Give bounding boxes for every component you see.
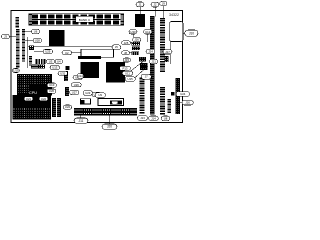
- svg-text:J13: J13: [140, 116, 145, 120]
- right pin strip D: [176, 78, 181, 114]
- leader J25 elbow: [129, 42, 132, 44]
- leader top pill 3: [163, 6, 165, 19]
- svg-text:U28: U28: [35, 39, 41, 43]
- callout U10: [47, 83, 56, 87]
- leader diagonal chip pills 2: [134, 66, 148, 79]
- jumper block JP3: [131, 51, 139, 55]
- svg-text:J7: J7: [145, 75, 148, 79]
- small IC right of U13: [66, 66, 70, 70]
- callout U24: [176, 92, 190, 97]
- callout J17: [163, 50, 172, 54]
- callout U27: [70, 90, 79, 94]
- svg-text:J8: J8: [124, 51, 127, 55]
- svg-text:J1: J1: [139, 2, 142, 6]
- svg-text:J2: J2: [154, 3, 157, 7]
- CPU pin grid dots: [14, 76, 50, 118]
- leader top pill 1: [139, 7, 141, 15]
- pin strip col2 (long, x150): [150, 16, 155, 115]
- callout U11: [122, 71, 132, 75]
- callout U2: [62, 51, 72, 55]
- jumper block right of col3: [165, 56, 169, 62]
- BANK 0 label: [76, 16, 93, 22]
- SIMM right end cap: [121, 14, 124, 25]
- CPU socket upper: [17, 74, 52, 96]
- svg-text:J15: J15: [125, 58, 130, 62]
- svg-text:J24: J24: [148, 49, 153, 53]
- callout J1: [136, 2, 144, 7]
- keyboard connector J10 outline: [170, 22, 183, 42]
- callout U22: [39, 97, 48, 101]
- svg-text:U6: U6: [34, 30, 38, 34]
- IC U2 (black chip): [49, 30, 65, 46]
- svg-text:CPU: CPU: [29, 91, 37, 95]
- board outline: [11, 10, 183, 122]
- callout U9: [95, 93, 106, 98]
- svg-text:J9: J9: [162, 2, 165, 6]
- callout J16: [182, 100, 193, 105]
- callout J10: [185, 30, 198, 36]
- svg-text:U22: U22: [65, 105, 71, 109]
- svg-text:U8: U8: [164, 116, 168, 120]
- jumper block JP1: [131, 42, 140, 46]
- leader U29: [34, 51, 43, 53]
- svg-text:J14: J14: [151, 116, 156, 120]
- svg-text:J3: J3: [4, 35, 7, 39]
- callout U21: [24, 97, 33, 101]
- callout J20: [102, 124, 117, 129]
- leader J16: [180, 102, 183, 104]
- callout J9: [160, 1, 167, 5]
- callout U4: [55, 59, 63, 63]
- callout U25: [73, 75, 83, 79]
- svg-text:U30: U30: [130, 30, 136, 34]
- SIMM socket bank row 1: [29, 14, 124, 19]
- svg-text:U9: U9: [98, 93, 102, 97]
- svg-text:J10: J10: [189, 31, 194, 35]
- callout U22: [63, 105, 71, 109]
- leader J8 elbow: [130, 52, 132, 54]
- svg-text:J20: J20: [107, 125, 112, 129]
- svg-text:J17: J17: [165, 50, 170, 54]
- callout U24: [92, 92, 101, 96]
- callout J2: [151, 2, 159, 7]
- callout U28: [33, 38, 42, 42]
- leader line J3: [9, 36, 16, 38]
- callout U26: [71, 83, 81, 87]
- pin strip left of bottom (b): [57, 98, 61, 117]
- svg-text:U29: U29: [45, 50, 51, 54]
- svg-text:J11: J11: [79, 119, 84, 123]
- svg-text:J5: J5: [115, 45, 118, 49]
- callout U29: [43, 50, 53, 54]
- callout J3: [2, 34, 10, 38]
- callout U31: [58, 71, 68, 75]
- CPU socket lower: [13, 95, 52, 120]
- leader U12 down: [147, 34, 149, 42]
- callout U8: [161, 116, 169, 121]
- header strip above CPU: [31, 65, 45, 69]
- pin strip col3 lower: [160, 87, 165, 115]
- svg-text:U24: U24: [180, 92, 186, 96]
- svg-text:BANK 0: BANK 0: [79, 18, 90, 22]
- callout J11: [74, 118, 88, 123]
- svg-text:J16: J16: [185, 101, 190, 105]
- callout U20: [47, 89, 56, 93]
- DIP socket bottom center 2: [98, 99, 124, 106]
- leader J26 elbow: [136, 41, 138, 42]
- pin strip col3 upper: [160, 18, 165, 72]
- leader J10: [183, 32, 185, 34]
- callout J8: [122, 51, 130, 55]
- svg-text:U2: U2: [65, 51, 69, 55]
- jumper block small left: [29, 45, 34, 50]
- jumper block JP5: [140, 63, 148, 70]
- callout U12: [144, 30, 152, 34]
- jumper block JP2: [132, 47, 140, 51]
- callout J25: [122, 41, 131, 45]
- leader U2 to socket: [72, 52, 81, 54]
- callout U19: [13, 69, 20, 73]
- svg-text:U27: U27: [72, 90, 78, 94]
- connector block left-mid horizontal: [35, 59, 46, 64]
- callout J7: [141, 74, 151, 79]
- SIMM socket bank row 2: [29, 20, 124, 25]
- callout J13: [137, 116, 147, 121]
- callout U23: [83, 91, 93, 95]
- svg-text:U14: U14: [78, 74, 84, 78]
- IC U1 top right: [135, 14, 145, 27]
- callout U6: [32, 29, 40, 34]
- svg-text:U21: U21: [26, 97, 32, 101]
- connector left bar 2: [22, 29, 25, 62]
- callout U13: [50, 66, 60, 70]
- leader U30 down: [132, 34, 134, 38]
- leader vertical line center-left: [27, 37, 29, 68]
- callout J14: [149, 116, 159, 121]
- svg-text:U31: U31: [60, 71, 66, 75]
- IC U4 chipset A: [81, 62, 100, 78]
- callout U30: [129, 30, 137, 34]
- leader diagonal chip pills 1: [130, 60, 145, 72]
- svg-text:U10: U10: [49, 83, 55, 87]
- jumper strip left mid: [29, 56, 32, 66]
- svg-text:U13: U13: [52, 66, 58, 70]
- DIP socket outline (white): [81, 49, 114, 57]
- leader below keyboard connector: [169, 42, 171, 65]
- callout J15: [123, 58, 131, 62]
- leader U6: [25, 31, 31, 33]
- jumper strip right of CPU lower: [65, 87, 69, 96]
- svg-text:P13: P13: [123, 66, 128, 70]
- leader top pill 2: [154, 7, 156, 17]
- svg-text:U20: U20: [49, 89, 55, 93]
- leader J20: [108, 115, 110, 124]
- callout U15: [125, 77, 135, 81]
- callout J24: [146, 49, 155, 53]
- pin strip col1 lower bar: [140, 78, 145, 114]
- callout J21: [150, 59, 158, 63]
- callout P13: [120, 66, 131, 70]
- jumper block JP4: [139, 57, 146, 62]
- svg-text:U23: U23: [85, 91, 91, 95]
- leader J11: [80, 115, 82, 118]
- svg-text:U26: U26: [74, 83, 80, 87]
- bottom right small strip: [168, 99, 172, 113]
- svg-text:U3: U3: [49, 59, 53, 63]
- IC U5 chipset B: [106, 62, 125, 83]
- leader long horizontal to J5: [28, 46, 112, 48]
- callout J5: [112, 45, 121, 50]
- pin strip left of bottom (a): [52, 98, 56, 117]
- svg-text:U12: U12: [145, 30, 151, 34]
- DIP chip bar: [78, 56, 101, 59]
- svg-text:U4: U4: [57, 60, 61, 64]
- small component near U24: [171, 92, 175, 96]
- SIMM left end cap: [29, 14, 32, 25]
- small box bottom center 1: [81, 99, 91, 104]
- svg-text:U22: U22: [41, 97, 47, 101]
- svg-text:U11: U11: [125, 71, 130, 75]
- callout U3: [46, 59, 54, 63]
- leader U28: [25, 40, 33, 42]
- svg-text:J21: J21: [151, 60, 156, 64]
- svg-text:U19: U19: [13, 69, 19, 73]
- callout U14: [77, 74, 84, 78]
- connector left bar 1: [16, 29, 20, 68]
- jumper strip right of CPU upper: [64, 71, 68, 81]
- svg-text:J25: J25: [124, 41, 129, 45]
- svg-text:J26: J26: [134, 38, 139, 42]
- callout J26: [133, 38, 141, 42]
- bottom long header J11: [74, 108, 137, 115]
- svg-text:34322: 34322: [169, 13, 179, 17]
- svg-text:U15: U15: [128, 77, 134, 81]
- connector left top bar: [16, 17, 20, 28]
